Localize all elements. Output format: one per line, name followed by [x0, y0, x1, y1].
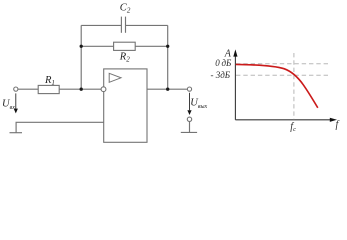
wire feedback right column [167, 25, 169, 89]
svg-text:R1: R1 [44, 75, 55, 87]
op-amp inverting input circle [101, 87, 106, 92]
svg-text:C2: C2 [120, 2, 131, 14]
node feedback-right junction dot [166, 45, 169, 48]
wire op-amp output [147, 88, 187, 90]
wire input to R1 [18, 88, 38, 90]
resistor R1 [38, 85, 59, 93]
wire R2 branch left [81, 45, 113, 47]
capacitor C2 left plate [120, 17, 122, 33]
voltage arrow Uin [14, 93, 18, 113]
dashed line -3 dB [236, 74, 330, 76]
wire feedback left column [80, 25, 82, 89]
svg-text:Uвых: Uвых [190, 98, 207, 110]
svg-text:0 дБ: 0 дБ [215, 58, 232, 68]
output terminal [187, 87, 191, 91]
node A junction dot [80, 88, 83, 91]
node feedback-left junction dot [80, 45, 83, 48]
wire output ground stub [189, 122, 191, 133]
dashed line fc [293, 53, 295, 119]
resistor R2 [114, 42, 136, 50]
svg-text:fc: fc [290, 121, 296, 133]
svg-text:Uвх: Uвх [2, 99, 15, 111]
op-amp amplification triangle [109, 73, 121, 82]
x axis [235, 119, 330, 121]
ground right [181, 131, 197, 133]
voltage arrow Uout [187, 93, 191, 115]
dashed line 0 dB [236, 63, 330, 65]
svg-text:f: f [336, 120, 340, 131]
wire top branch left [81, 24, 121, 26]
x-axis arrowhead [330, 118, 337, 122]
input terminal [14, 87, 18, 91]
wire ground rail lower [16, 122, 104, 132]
wire R2 branch right [135, 45, 168, 47]
y-axis arrowhead [233, 49, 237, 56]
wire R1 to op-amp input [59, 88, 101, 90]
frequency response curve [236, 64, 318, 107]
capacitor C2 right plate [125, 17, 127, 33]
wire top branch right [126, 24, 168, 26]
svg-text:- 3дБ: - 3дБ [211, 70, 231, 80]
op-amp U1 body [104, 69, 147, 142]
y axis [234, 56, 236, 120]
node output junction dot [166, 88, 169, 91]
ground left [10, 132, 23, 134]
svg-text:R2: R2 [119, 51, 130, 63]
output ground terminal [187, 117, 191, 121]
